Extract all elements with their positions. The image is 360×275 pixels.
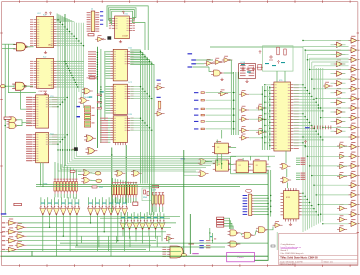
input buffer B2 — [15, 223, 27, 230]
bus buffer A-low 176 — [337, 172, 347, 179]
wire RN1 top drops — [54, 162, 56, 179]
wire net plates to gates — [224, 218, 230, 229]
wire mid long 1 — [36, 184, 268, 186]
bus buffer A1 — [334, 40, 345, 47]
label R18 — [133, 202, 138, 205]
GND symbol 1 — [44, 51, 47, 54]
OR gate G32 — [84, 135, 96, 142]
wire bus C column — [302, 47, 304, 232]
IC3 ROM 2708 — [36, 95, 49, 128]
NAND gate G23 — [242, 232, 255, 238]
bus buffer Bc6 — [348, 84, 359, 91]
VCC symbol 3 — [259, 51, 261, 54]
NOR gate row1 #5 — [67, 205, 73, 215]
wire ground net accent — [64, 14, 66, 166]
bus buffer A2 — [334, 50, 345, 57]
flip-flop FF4 4013 — [253, 161, 266, 173]
bus buffer Bc2 — [348, 45, 359, 52]
wire video input verticals — [261, 86, 263, 150]
wire top fan corners — [303, 46, 349, 48]
NAND gate G25 — [228, 241, 241, 247]
svg-text:Board 2: Board 2 — [281, 249, 289, 252]
NOR gate row2 #3 — [133, 220, 139, 230]
NOR gate row2 #2 — [126, 220, 132, 230]
GND symbol 2 — [119, 40, 122, 43]
buffer G15-1 — [239, 90, 249, 97]
svg-text:Craig Andrews: Craig Andrews — [281, 243, 296, 246]
net label blue mid — [181, 158, 186, 159]
buffer G16-1 — [256, 104, 266, 111]
OR gate G5 — [81, 170, 92, 176]
wire G5G6 pads — [90, 172, 95, 175]
wire IC2 across bus A — [56, 60, 83, 62]
input net label P1 — [2, 222, 5, 223]
NAND gate G4 — [7, 123, 20, 129]
pad X7 — [36, 95, 40, 98]
input net label P6 — [2, 245, 5, 246]
wire row2 gate outputs — [122, 230, 124, 236]
IC7 RAM 2114 — [113, 84, 127, 114]
resistor network RN3 — [152, 195, 154, 204]
bus buffer Bc20 — [348, 219, 359, 226]
input net label P2 — [2, 227, 5, 228]
AND gate G8 — [131, 170, 142, 176]
svg-text:74LS02: 74LS02 — [84, 97, 90, 99]
decoupling caps — [242, 67, 245, 72]
bus buffer A-low 146 — [337, 142, 347, 149]
IC8 bottom pins — [116, 143, 126, 146]
wire outer loop — [107, 6, 148, 50]
NOR gate row1 #12 — [115, 205, 121, 215]
wire bottom bus 2 — [1, 255, 269, 257]
frame tick marks — [19, 0, 21, 2]
label 4069b — [88, 34, 94, 36]
bus buffer A-low 220 — [337, 215, 347, 222]
bus buffer Bc7 — [348, 94, 359, 101]
wire left verticals — [4, 44, 6, 214]
net label G17 — [157, 80, 161, 81]
wire osc to IC9 — [276, 71, 278, 82]
resistor R5 — [158, 101, 161, 108]
wire IC9 to bus C — [293, 84, 303, 86]
AND gate G27 multi-input — [170, 246, 183, 258]
buffer G28 — [323, 82, 333, 89]
net name plates — [217, 217, 224, 219]
RN3 label box — [152, 186, 159, 188]
inverter chain G11 — [213, 58, 224, 65]
bus buffer Bc16 — [348, 180, 359, 187]
connector J4 — [206, 240, 210, 241]
wire gate chain out — [241, 233, 243, 235]
NOR gate row2 #5 — [146, 220, 152, 230]
input buffer B1 — [6, 219, 18, 226]
misc marks under FF — [210, 236, 213, 237]
bus buffer Bc18 — [348, 200, 359, 207]
bus buffer Bc10 — [348, 123, 359, 130]
G34 label — [89, 97, 92, 98]
NOR gate row1 #4 — [60, 205, 66, 215]
IC4 ROM 2708 — [36, 133, 49, 163]
RC filter packs — [84, 106, 90, 112]
input net label P5 — [2, 240, 5, 241]
IC8 RAM 2114 — [113, 116, 127, 143]
net labels mid left column — [194, 92, 198, 93]
wire bus D column — [230, 72, 232, 135]
NOR gate row2 #1 — [120, 220, 126, 230]
bus buffer A9 — [334, 117, 345, 124]
NAND gate G2 — [12, 82, 29, 90]
svg-text:Power: Power — [237, 256, 243, 259]
buffer G15-3 — [239, 115, 249, 122]
NOR gate row1 #10 — [101, 205, 107, 215]
NOR gate row1 #3 — [53, 205, 59, 215]
wire fan to bus buffers — [303, 40, 349, 42]
NOR gate row1 #6 — [74, 205, 80, 215]
gate name labels — [41, 202, 45, 205]
wire mid long 2 — [36, 185, 240, 187]
bus buffer Bc17 — [348, 190, 359, 197]
label 4069 — [14, 203, 22, 205]
pad X3 bottom — [181, 254, 186, 257]
NOR gate row1 #1 — [40, 205, 46, 215]
buffer G17 — [155, 83, 165, 90]
NOR gate row2 #6 — [152, 220, 158, 230]
NAND gate G24 — [256, 227, 269, 233]
wire RAM left pin stubs — [106, 51, 111, 53]
wire ROM outputs to bus A — [49, 96, 68, 98]
wire row2 inputs — [120, 212, 122, 220]
resistor R2 — [70, 170, 75, 172]
wire IC1 to bus A staircase — [56, 19, 58, 21]
flip-flop FF2 4013 — [215, 160, 228, 171]
wire FF loop — [231, 155, 275, 157]
bus buffer Bc19 — [348, 209, 359, 216]
OR gate G29 — [198, 159, 209, 165]
pad X4 left — [0, 85, 5, 88]
bus buffer Bc3 — [348, 55, 359, 62]
bus buffer Bc9 — [348, 113, 359, 120]
wire memory select verticals — [96, 47, 98, 148]
wire RN2 bottom drops — [112, 198, 114, 203]
resistor network RN1 — [54, 182, 56, 192]
label blue bottomleft — [1, 213, 7, 214]
VCC symbol 2 — [49, 12, 51, 15]
net label busA 2 — [76, 116, 80, 117]
inverter chain G10 — [204, 59, 215, 66]
wire row1 gate outputs — [42, 215, 44, 251]
svg-text:Sheet: 1/1: Sheet: 1/1 — [324, 260, 334, 263]
buffer G15-2 — [239, 106, 249, 113]
op-amp G26 — [164, 234, 174, 241]
bus buffer Bc13 — [348, 152, 359, 159]
wire bus E drops — [216, 154, 218, 166]
bus buffer A5 — [334, 78, 345, 85]
crystal X1 — [258, 65, 262, 70]
NOR gate row1 #8 — [87, 205, 93, 215]
bus buffer A-low 208 — [337, 204, 347, 211]
input net label P4 — [2, 236, 5, 237]
wire G2 drop — [21, 90, 27, 109]
schematic frame — [2, 1, 358, 3]
connector J1 header — [91, 11, 95, 32]
wire chain inputs — [193, 59, 214, 61]
title block — [279, 233, 358, 264]
GND symbol 5 — [245, 80, 248, 83]
wire RN3 drops — [152, 207, 154, 212]
wire FF row — [205, 161, 212, 163]
NOR gate row2 #7 — [159, 220, 165, 230]
buffer G16-2 — [256, 115, 266, 122]
NAND gate G13 — [211, 70, 224, 76]
bus buffer A-low 156 — [337, 152, 347, 159]
buffer G15-5 — [239, 134, 249, 141]
transistor Q1 — [74, 147, 78, 151]
wire bottom bus 3 — [60, 242, 268, 244]
terminator resistors — [311, 126, 313, 130]
wire bus A top stubs — [56, 13, 58, 15]
GND label left of title — [271, 245, 275, 247]
bus buffer Bc12 — [348, 142, 359, 149]
svg-text:Date: 9/15/2011 5:42 PM: Date: 9/15/2011 5:42 PM — [280, 260, 302, 263]
wire G3G4 out — [17, 120, 22, 126]
bus buffer A7 — [334, 98, 345, 105]
input buffer B7 — [6, 245, 18, 252]
wire bottom risers — [80, 236, 82, 243]
bus buffer A-low 166 — [337, 162, 347, 169]
VCC symbol 5 — [304, 141, 306, 144]
GND symbol 6 — [220, 78, 223, 81]
wire WE verticals — [111, 148, 113, 213]
wire bus B column — [130, 50, 140, 184]
flip-flop FF1 4013 — [215, 143, 229, 154]
NAND gate G1 — [13, 43, 30, 51]
wire junction dots — [57, 19, 58, 20]
wire gate chain verticals — [285, 151, 287, 164]
input net label P3 — [2, 231, 5, 232]
svg-text:TMac Solid State Music CB64 05: TMac Solid State Music CB64 05 — [280, 257, 318, 260]
wire G1 area — [2, 43, 15, 45]
NAND gate G22 — [228, 230, 241, 236]
bus buffer A10 — [334, 126, 345, 133]
net label stacks right — [301, 158, 306, 159]
IC1 CDP1852 I/O port — [36, 16, 53, 47]
wire IC4 bottom drops — [40, 163, 42, 185]
pad X5 — [95, 172, 101, 175]
VCC symbol 6 — [122, 11, 124, 14]
buffer G14 — [218, 89, 228, 96]
wire bottom bus 1 — [1, 250, 182, 252]
NOR gate row1 #13 — [122, 205, 128, 215]
svg-text:CDP1852: CDP1852 — [39, 91, 49, 93]
bus buffer A3 — [334, 59, 345, 66]
label right of G27 — [188, 243, 194, 244]
wire RAM right connections — [130, 51, 140, 53]
bus buffer A-low 230 — [337, 225, 347, 232]
wire RN1 bottom drops — [54, 194, 56, 197]
XOR gate G20 — [280, 177, 291, 183]
AND gate G7 — [115, 170, 126, 176]
VCC symbol 4 — [277, 61, 279, 64]
wire G29 inputs — [184, 159, 198, 161]
wire bottom vert a — [31, 251, 33, 256]
GND symbol 4 — [289, 223, 292, 226]
wire FF tops — [221, 130, 223, 139]
ferrite bead FB1 — [107, 36, 111, 39]
wire buffer row outputs — [18, 222, 176, 224]
crystal oscillator circuit — [263, 46, 294, 71]
bus buffer Bc1 — [348, 36, 359, 43]
wire G2 area — [6, 85, 15, 87]
bus buffer Bc11 — [348, 132, 359, 139]
bus buffer Bc5 — [348, 74, 359, 81]
RAM pin label columns — [88, 51, 96, 52]
IC9 CDP1861 video — [274, 82, 291, 151]
XOR gate G19 — [280, 163, 291, 169]
wire label stack stubs — [296, 157, 300, 159]
wire IC5 right to busB — [132, 23, 145, 51]
bus buffer Bc14 — [348, 161, 359, 168]
NAND gate G3 — [7, 117, 20, 123]
bus buffer Bc15 — [348, 171, 359, 178]
bus buffer A6 — [334, 88, 345, 95]
wire bottom bus 4 — [75, 246, 225, 248]
pad X6 — [96, 179, 102, 182]
IC10 4049 hex inverter — [239, 64, 256, 79]
OR gate G31 — [82, 88, 93, 94]
OR gate G34 — [79, 98, 90, 104]
svg-text:File: SSM CB64 dwg.sch: File: SSM CB64 dwg.sch — [281, 253, 305, 255]
label MWR box — [4, 117, 11, 119]
svg-text:REV 1.02 draft B554: REV 1.02 draft B554 — [280, 263, 296, 266]
NOR gate row1 #9 — [94, 205, 100, 215]
svg-text:LS157: LS157 — [122, 36, 129, 38]
bus buffer Bc4 — [348, 65, 359, 72]
wire IC11 to bus C — [302, 192, 303, 194]
bus buffer A4 — [334, 69, 345, 76]
resistor R1 — [90, 77, 95, 79]
OR gate G30 — [198, 171, 209, 177]
OR gate G6 — [81, 177, 92, 183]
wire row2 feed — [100, 217, 170, 219]
resistor R3 — [92, 186, 97, 188]
NOR gate row1 #11 — [108, 205, 114, 215]
OR gate G33 — [86, 148, 98, 155]
inverter G9 — [95, 35, 106, 42]
buffer G15-4 — [239, 126, 249, 133]
wire colA buffer stubs — [331, 44, 335, 46]
bus buffer A8 — [334, 107, 345, 114]
input buffer B6 — [15, 241, 27, 248]
ROM pin labels — [26, 97, 32, 98]
input buffer B3 — [6, 227, 18, 234]
wire left risers — [183, 150, 185, 254]
net labels top mid — [188, 53, 193, 54]
resistor network RN2 — [112, 185, 114, 195]
wire RN2 top drops — [112, 178, 114, 182]
wire IC5 blue labels — [100, 11, 103, 12]
net label busA 1 — [76, 106, 80, 107]
wire bus A and bus E data lines — [58, 14, 196, 171]
wire row1 inputs — [40, 197, 42, 205]
wire TPA line — [210, 46, 303, 48]
bus buffer Bc8 — [348, 103, 359, 110]
NOR gate row1 #2 — [47, 205, 53, 215]
input buffer B4 — [15, 232, 27, 239]
RN3 aux box — [142, 188, 151, 201]
buffer G21 — [273, 221, 283, 228]
input net label P7 — [2, 249, 5, 250]
buffer G16-3 — [256, 128, 266, 135]
inverter chain G12 — [222, 56, 233, 63]
wire long row y216.7 — [2, 216, 180, 218]
flip-flop FF3 4013 — [236, 161, 248, 173]
IC6 RAM 2114 — [113, 49, 127, 81]
VCC symbol 1 — [45, 12, 47, 15]
GND symbol 3 — [44, 92, 47, 95]
buffer G18 — [155, 110, 165, 117]
NOR gate row2 #4 — [139, 220, 145, 230]
wire loops around IC5 — [108, 8, 136, 20]
IC11 CDP1863 — [283, 191, 299, 219]
net label boxes mid — [97, 94, 101, 96]
wire near title — [276, 232, 278, 250]
IC5 74LS157 — [115, 16, 130, 39]
IC2 CDP1852 I/O port — [36, 58, 53, 88]
wire J2 to verticals — [254, 195, 268, 197]
power note box — [227, 252, 255, 261]
connector J2 — [245, 189, 251, 192]
input buffer B5 — [6, 236, 18, 243]
net label G18 — [157, 97, 161, 98]
